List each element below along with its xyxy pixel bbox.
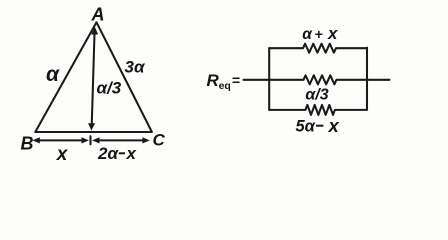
svg-text:C: C bbox=[153, 131, 166, 150]
svg-text:=: = bbox=[232, 72, 240, 88]
svg-text:+: + bbox=[315, 26, 323, 42]
svg-text:B: B bbox=[21, 133, 34, 153]
svg-text:R: R bbox=[207, 71, 220, 90]
svg-text:x: x bbox=[126, 144, 138, 163]
svg-text:A: A bbox=[91, 5, 105, 25]
svg-text:5α: 5α bbox=[296, 118, 316, 136]
svg-text:eq: eq bbox=[219, 80, 231, 92]
svg-text:2α: 2α bbox=[97, 144, 119, 163]
svg-text:α: α bbox=[302, 26, 313, 43]
svg-text:α: α bbox=[46, 63, 60, 86]
svg-text:x: x bbox=[328, 115, 340, 136]
svg-text:x: x bbox=[56, 144, 69, 165]
svg-text:3α: 3α bbox=[125, 58, 146, 77]
svg-text:α/3: α/3 bbox=[97, 79, 122, 98]
svg-text:x: x bbox=[327, 24, 339, 43]
svg-text:α/3: α/3 bbox=[305, 87, 328, 104]
